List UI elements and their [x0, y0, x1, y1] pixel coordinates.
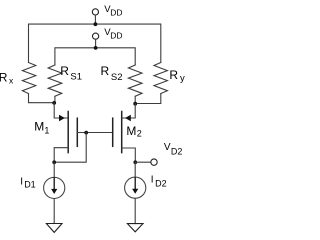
wire VDD rail 2: [55, 48, 135, 65]
label Rx: [0, 70, 14, 85]
label VDD second: [104, 27, 122, 41]
node gate dot: [84, 131, 88, 135]
wire RS1 bottom to node A: [54, 96, 56, 102]
transistor M1 drain lead (bottom): [54, 148, 68, 163]
svg-text:y: y: [180, 73, 185, 84]
resistor RS1: [48, 65, 62, 96]
svg-text:I: I: [20, 176, 23, 187]
svg-text:DD: DD: [110, 31, 122, 41]
wire Rx bottom to node A: [29, 94, 55, 103]
label ID1: [20, 176, 35, 189]
node dot rail1/VDD: [94, 22, 98, 26]
current source ID2: [125, 177, 146, 198]
svg-text:I: I: [151, 174, 154, 185]
label M1: [34, 120, 49, 136]
svg-text:R: R: [0, 70, 8, 84]
node dot rail2/VDD: [94, 46, 98, 50]
svg-text:M: M: [126, 124, 136, 138]
terminal VDD (top): [92, 9, 98, 24]
terminal VD2: [151, 159, 157, 165]
wire ID1 to ground: [53, 199, 55, 224]
resistor Ry: [154, 63, 167, 94]
wire gate to M1 drain node: [54, 133, 86, 163]
label RS2: [101, 64, 123, 83]
svg-text:1: 1: [44, 126, 49, 136]
resistor RS2: [128, 65, 142, 96]
label VDD top: [104, 4, 122, 18]
svg-text:R: R: [60, 64, 69, 78]
label ID2: [151, 174, 167, 188]
transistor M1 source lead (top, arrow into channel): [54, 103, 68, 118]
wire gate bus M1-M2: [77, 132, 112, 134]
svg-text:DD: DD: [110, 7, 122, 17]
current source ID1: [44, 177, 65, 198]
wire to VD2 terminal: [135, 161, 150, 163]
resistor Rx: [22, 63, 35, 94]
svg-text:D2: D2: [171, 147, 183, 157]
wire node to ID1: [53, 162, 55, 177]
label M2: [126, 124, 141, 139]
wire VDD rail 1: [29, 24, 161, 62]
terminal VDD (second): [93, 33, 99, 48]
svg-text:2: 2: [137, 128, 142, 138]
ground (left): [46, 224, 62, 233]
wire Ry bottom to node B: [135, 94, 161, 104]
transistor M1 gate bar: [76, 118, 78, 146]
transistor M2 source lead (top, arrow into channel): [122, 104, 136, 118]
svg-text:D2: D2: [155, 178, 167, 188]
label VD2: [164, 142, 183, 157]
svg-text:D1: D1: [24, 180, 36, 190]
wire node to ID2: [134, 162, 136, 177]
node A dot (Rx,RS1,M1 source): [52, 101, 56, 105]
label Ry: [169, 68, 185, 84]
node B dot (Ry,RS2,M2 source): [133, 102, 137, 106]
node M2 drain dot: [133, 160, 137, 164]
transistor M2 channel bar: [121, 112, 123, 153]
svg-text:M: M: [34, 120, 44, 134]
svg-text:S2: S2: [111, 72, 123, 83]
ground (right): [127, 224, 143, 232]
transistor M2 gate bar: [112, 118, 114, 146]
wire ID2 to ground: [134, 198, 136, 223]
svg-text:V: V: [164, 142, 171, 153]
wire RS2 bottom to node B: [134, 96, 136, 103]
svg-text:S1: S1: [70, 71, 82, 82]
label RS1: [60, 64, 82, 83]
node M1 drain dot: [52, 160, 56, 164]
svg-text:R: R: [169, 68, 178, 82]
transistor M2 drain lead (bottom): [122, 148, 136, 162]
svg-text:R: R: [101, 64, 110, 78]
transistor M1 channel bar: [67, 112, 69, 153]
